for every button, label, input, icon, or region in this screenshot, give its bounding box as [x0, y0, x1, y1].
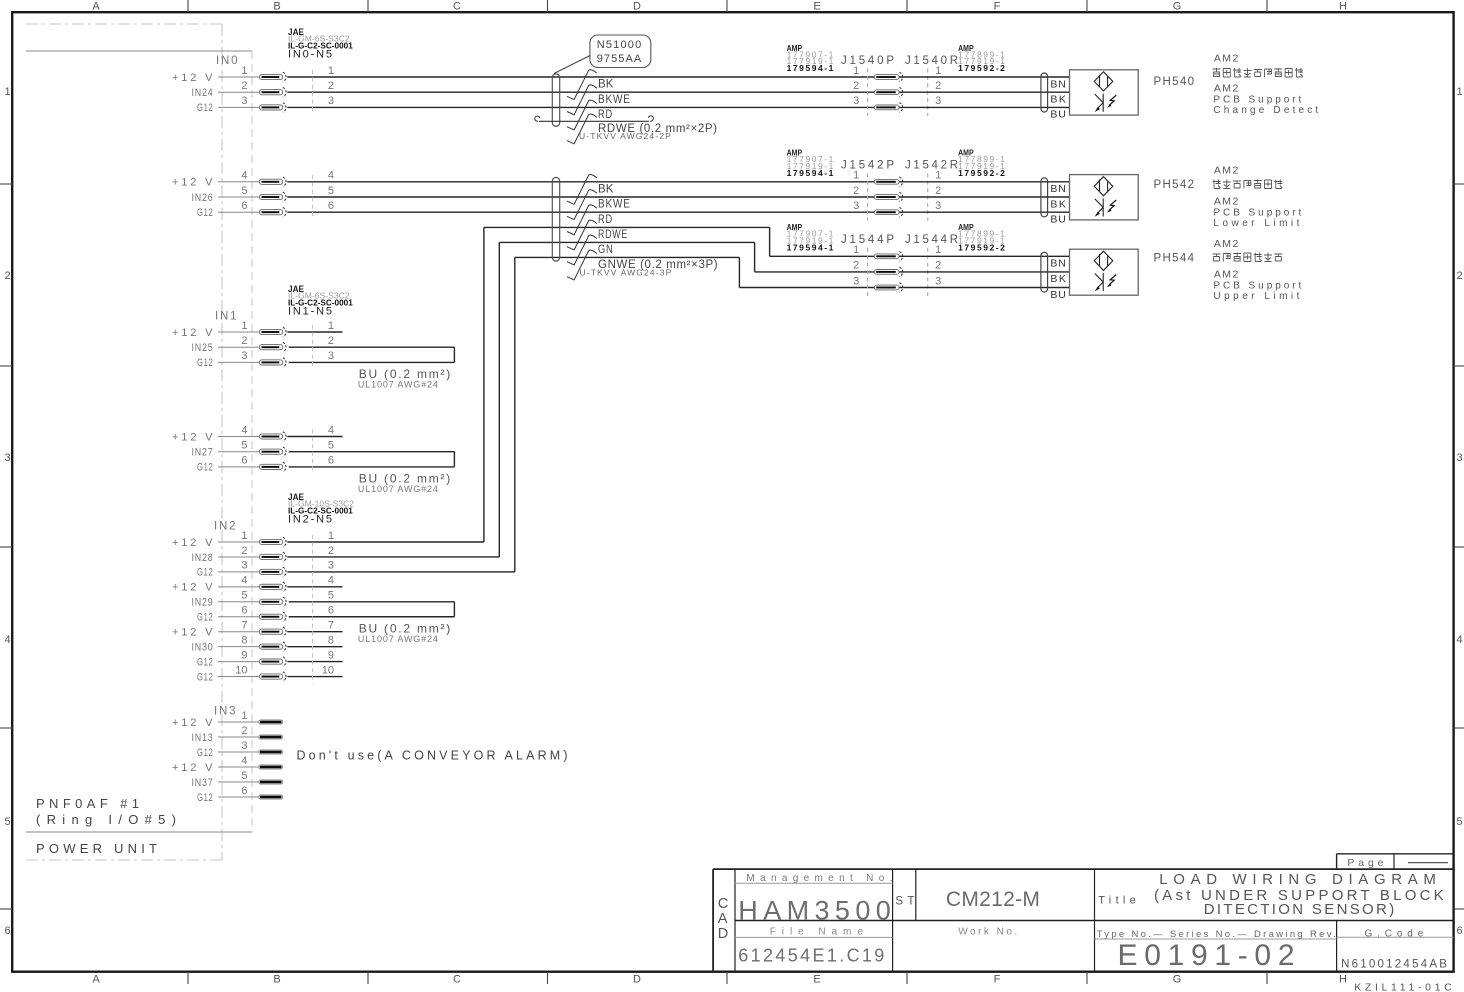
svg-text:2: 2 — [1457, 270, 1463, 282]
svg-text:+12 V: +12 V — [172, 72, 214, 84]
svg-text:IN24: IN24 — [192, 87, 214, 99]
svg-text:A: A — [718, 911, 728, 927]
svg-text:3: 3 — [328, 350, 334, 362]
svg-text:+12 V: +12 V — [172, 327, 214, 339]
svg-text:Page: Page — [1347, 857, 1385, 869]
svg-text:2: 2 — [5, 270, 11, 282]
svg-text:File Name: File Name — [770, 927, 864, 938]
svg-text:4: 4 — [241, 755, 247, 767]
svg-text:D: D — [633, 974, 641, 986]
svg-text:BK: BK — [1050, 94, 1066, 106]
svg-text:IN30: IN30 — [192, 641, 214, 653]
svg-text:612454E1.C19: 612454E1.C19 — [738, 946, 884, 966]
svg-text:IN1: IN1 — [215, 311, 237, 323]
svg-text:J1540R: J1540R — [905, 55, 959, 67]
svg-text:1: 1 — [241, 320, 247, 332]
svg-text:8: 8 — [328, 634, 334, 646]
svg-text:2: 2 — [241, 545, 247, 557]
svg-text:7: 7 — [241, 620, 247, 632]
svg-text:3: 3 — [241, 740, 247, 752]
svg-text:ST: ST — [895, 895, 914, 907]
svg-text:5: 5 — [328, 440, 334, 452]
svg-text:BU: BU — [1050, 289, 1066, 301]
svg-text:GN: GN — [598, 244, 614, 256]
svg-text:LOAD WIRING DIAGRAM: LOAD WIRING DIAGRAM — [1159, 871, 1436, 888]
svg-text:179592-2: 179592-2 — [958, 168, 1005, 178]
svg-text:6: 6 — [241, 785, 247, 797]
svg-text:BN: BN — [1050, 78, 1066, 90]
svg-text:D: D — [633, 1, 641, 13]
svg-text:POWER UNIT: POWER UNIT — [36, 841, 158, 856]
svg-text:G12: G12 — [197, 207, 214, 219]
svg-text:4: 4 — [328, 424, 334, 436]
svg-text:PH540: PH540 — [1154, 76, 1196, 88]
svg-text:IN27: IN27 — [192, 447, 214, 459]
svg-text:4: 4 — [241, 424, 247, 436]
svg-text:2: 2 — [853, 80, 859, 92]
svg-text:2: 2 — [853, 260, 859, 272]
svg-text:6: 6 — [241, 200, 247, 212]
svg-text:IN28: IN28 — [192, 552, 214, 564]
svg-text:8: 8 — [241, 634, 247, 646]
svg-text:179592-2: 179592-2 — [958, 242, 1005, 252]
svg-text:AM2: AM2 — [1214, 196, 1239, 208]
svg-text:1: 1 — [241, 65, 247, 77]
svg-text:3: 3 — [935, 200, 941, 212]
svg-text:G12: G12 — [197, 462, 214, 474]
svg-text:4: 4 — [241, 575, 247, 587]
svg-text:1: 1 — [328, 530, 334, 542]
svg-text:+12 V: +12 V — [172, 582, 214, 594]
svg-text:PCB Support: PCB Support — [1213, 208, 1302, 219]
svg-text:3: 3 — [241, 560, 247, 572]
svg-text:BN: BN — [1050, 258, 1066, 270]
svg-text:10: 10 — [235, 664, 247, 676]
svg-text:RDWE: RDWE — [598, 229, 628, 241]
svg-text:Management No.: Management No. — [746, 873, 893, 884]
svg-text:IN2: IN2 — [214, 521, 236, 533]
svg-text:PH542: PH542 — [1154, 179, 1196, 191]
svg-text:RD: RD — [598, 214, 613, 226]
svg-text:3: 3 — [853, 275, 859, 287]
svg-text:B: B — [273, 1, 280, 13]
svg-text:DITECTION SENSOR): DITECTION SENSOR) — [1204, 901, 1395, 918]
svg-text:IN29: IN29 — [192, 597, 214, 609]
svg-text:BKWE: BKWE — [598, 199, 631, 211]
svg-text:BN: BN — [1050, 183, 1066, 195]
svg-text:6: 6 — [328, 455, 334, 467]
svg-text:G12: G12 — [197, 102, 214, 114]
svg-text:C: C — [453, 974, 461, 986]
svg-text:5: 5 — [328, 590, 334, 602]
svg-text:C: C — [718, 896, 728, 912]
svg-text:G12: G12 — [197, 792, 214, 804]
svg-text:IN3: IN3 — [214, 706, 236, 718]
svg-text:UL1007 AWG#24: UL1007 AWG#24 — [358, 379, 438, 389]
svg-text:G12: G12 — [197, 357, 214, 369]
svg-text:3: 3 — [328, 95, 334, 107]
svg-text:+12 V: +12 V — [172, 762, 214, 774]
svg-text:J1542R: J1542R — [905, 160, 959, 172]
svg-text:5: 5 — [1457, 816, 1463, 828]
svg-text:3: 3 — [935, 95, 941, 107]
svg-text:1: 1 — [241, 530, 247, 542]
svg-text:3: 3 — [853, 95, 859, 107]
svg-text:B: B — [273, 974, 280, 986]
svg-text:2: 2 — [935, 185, 941, 197]
svg-text:AM2: AM2 — [1214, 165, 1239, 177]
svg-text:6: 6 — [328, 200, 334, 212]
svg-text:Title: Title — [1098, 895, 1136, 907]
svg-text:Change Detect: Change Detect — [1213, 105, 1319, 116]
svg-text:E: E — [813, 974, 820, 986]
svg-text:E: E — [813, 1, 820, 13]
svg-text:6: 6 — [5, 925, 11, 937]
svg-text:1: 1 — [328, 320, 334, 332]
svg-text:BK: BK — [1050, 273, 1066, 285]
svg-text:G12: G12 — [197, 747, 214, 759]
svg-text:179594-1: 179594-1 — [787, 242, 834, 252]
svg-text:UL1007 AWG#24: UL1007 AWG#24 — [358, 634, 438, 644]
svg-text:9755AA: 9755AA — [597, 53, 643, 65]
svg-text:4: 4 — [5, 634, 11, 646]
svg-text:IN25: IN25 — [192, 342, 214, 354]
svg-text:C: C — [453, 1, 461, 13]
svg-text:1: 1 — [328, 65, 334, 77]
svg-text:J1542P: J1542P — [841, 160, 895, 172]
svg-text:A: A — [92, 1, 100, 13]
svg-text:2: 2 — [241, 335, 247, 347]
svg-text:2: 2 — [328, 545, 334, 557]
svg-text:5: 5 — [328, 185, 334, 197]
svg-text:179594-1: 179594-1 — [787, 63, 834, 73]
svg-text:AM2: AM2 — [1214, 83, 1239, 95]
svg-text:4: 4 — [1457, 634, 1463, 646]
svg-text:IN37: IN37 — [192, 777, 214, 789]
svg-text:4: 4 — [328, 170, 334, 182]
svg-text:5: 5 — [5, 816, 11, 828]
svg-text:G: G — [1173, 974, 1182, 986]
svg-text:2: 2 — [935, 80, 941, 92]
svg-text:5: 5 — [241, 770, 247, 782]
svg-text:6: 6 — [241, 455, 247, 467]
svg-text:5: 5 — [241, 590, 247, 602]
svg-text:RD: RD — [598, 109, 613, 121]
svg-text:3: 3 — [5, 452, 11, 464]
svg-text:6: 6 — [328, 605, 334, 617]
svg-text:PCB Support: PCB Support — [1213, 95, 1302, 106]
svg-text:J1540P: J1540P — [841, 55, 895, 67]
svg-text:+12 V: +12 V — [172, 537, 214, 549]
svg-text:3: 3 — [241, 350, 247, 362]
svg-text:G12: G12 — [197, 612, 214, 624]
svg-text:1: 1 — [1457, 86, 1463, 98]
svg-text:KZIL111-01C: KZIL111-01C — [1354, 982, 1452, 992]
svg-text:2: 2 — [241, 725, 247, 737]
svg-text:J1544R: J1544R — [905, 234, 959, 246]
svg-text:1: 1 — [5, 86, 11, 98]
svg-text:2: 2 — [935, 260, 941, 272]
svg-text:PNF0AF #1: PNF0AF #1 — [36, 796, 140, 811]
svg-text:2: 2 — [328, 80, 334, 92]
svg-text:2: 2 — [328, 335, 334, 347]
svg-text:IN26: IN26 — [192, 192, 214, 204]
svg-text:IN13: IN13 — [192, 732, 214, 744]
svg-text:BU: BU — [1050, 109, 1066, 121]
svg-text:G12: G12 — [197, 656, 214, 668]
svg-text:179592-2: 179592-2 — [958, 63, 1005, 73]
svg-text:G: G — [1173, 1, 1182, 13]
svg-text:Lower Limit: Lower Limit — [1213, 218, 1300, 229]
svg-text:2: 2 — [853, 185, 859, 197]
svg-text:PH544: PH544 — [1154, 253, 1196, 265]
svg-text:Work No.: Work No. — [958, 927, 1018, 938]
svg-text:3: 3 — [1457, 452, 1463, 464]
svg-text:4: 4 — [241, 170, 247, 182]
svg-text:CM212-M: CM212-M — [946, 888, 1040, 911]
svg-text:4: 4 — [328, 575, 334, 587]
svg-text:N51000: N51000 — [597, 39, 643, 51]
svg-text:9: 9 — [328, 649, 334, 661]
svg-text:H: H — [1339, 1, 1347, 13]
svg-text:2: 2 — [241, 80, 247, 92]
svg-text:U-TKVV AWG24-2P: U-TKVV AWG24-2P — [579, 131, 671, 141]
svg-text:G12: G12 — [197, 567, 214, 579]
svg-text:BU: BU — [1050, 214, 1066, 226]
svg-text:179594-1: 179594-1 — [787, 168, 834, 178]
svg-text:UL1007 AWG#24: UL1007 AWG#24 — [358, 484, 438, 494]
svg-text:10: 10 — [322, 664, 334, 676]
svg-text:PCB Support: PCB Support — [1213, 281, 1302, 292]
svg-text:A: A — [92, 974, 100, 986]
svg-text:IN0-N5: IN0-N5 — [288, 49, 333, 61]
svg-text:BK: BK — [598, 184, 614, 196]
svg-text:5: 5 — [241, 440, 247, 452]
svg-text:BKWE: BKWE — [598, 94, 631, 106]
svg-text:6: 6 — [1457, 925, 1463, 937]
svg-text:H: H — [1339, 974, 1347, 986]
svg-text:N610012454AB: N610012454AB — [1341, 958, 1447, 970]
svg-text:6: 6 — [241, 605, 247, 617]
svg-text:BK: BK — [598, 79, 614, 91]
svg-text:AM2: AM2 — [1214, 238, 1239, 250]
svg-text:3: 3 — [853, 200, 859, 212]
svg-text:AM2: AM2 — [1214, 53, 1239, 65]
svg-text:Upper Limit: Upper Limit — [1213, 291, 1300, 302]
svg-text:F: F — [994, 1, 1001, 13]
svg-text:+12 V: +12 V — [172, 177, 214, 189]
svg-text:(Ring I/O#5): (Ring I/O#5) — [36, 812, 177, 827]
svg-text:3: 3 — [328, 560, 334, 572]
svg-text:1: 1 — [241, 710, 247, 722]
svg-text:7: 7 — [328, 620, 334, 632]
svg-text:+12 V: +12 V — [172, 627, 214, 639]
svg-text:5: 5 — [241, 185, 247, 197]
svg-text:D: D — [718, 926, 728, 942]
svg-text:IN2-N5: IN2-N5 — [288, 514, 333, 526]
svg-text:Don't use(A CONVEYOR ALARM): Don't use(A CONVEYOR ALARM) — [297, 749, 569, 763]
svg-text:3: 3 — [241, 95, 247, 107]
svg-text:IN1-N5: IN1-N5 — [288, 306, 333, 318]
svg-text:IN0: IN0 — [216, 55, 238, 67]
svg-text:9: 9 — [241, 649, 247, 661]
svg-text:+12 V: +12 V — [172, 717, 214, 729]
svg-text:J1544P: J1544P — [841, 234, 895, 246]
svg-text:AM2: AM2 — [1214, 269, 1239, 281]
svg-text:3: 3 — [935, 275, 941, 287]
svg-text:F: F — [994, 974, 1001, 986]
svg-text:BK: BK — [1050, 198, 1066, 210]
svg-text:U-TKVV AWG24-3P: U-TKVV AWG24-3P — [580, 268, 672, 278]
svg-text:E0191-02: E0191-02 — [1118, 939, 1295, 972]
svg-text:+12 V: +12 V — [172, 431, 214, 443]
svg-text:G12: G12 — [197, 671, 214, 683]
